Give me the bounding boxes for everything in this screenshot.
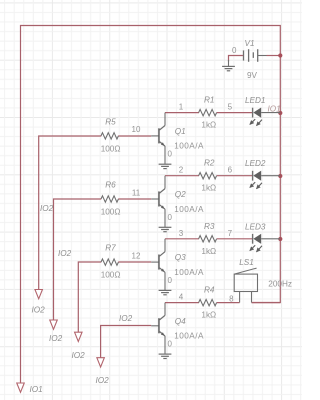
svg-text:9V: 9V <box>247 71 258 80</box>
junction dot <box>278 53 282 57</box>
svg-text:Q2: Q2 <box>175 190 186 199</box>
transistor Q4 <box>151 325 159 327</box>
svg-text:IO2: IO2 <box>32 305 46 314</box>
svg-text:100Ω: 100Ω <box>101 144 121 153</box>
svg-text:V1: V1 <box>245 39 255 48</box>
LED1 <box>252 108 254 118</box>
svg-text:R1: R1 <box>204 96 214 105</box>
svg-text:1kΩ: 1kΩ <box>201 121 216 130</box>
port IO2 (from R7) <box>75 332 83 341</box>
LED2 <box>252 171 254 181</box>
ground (Q3) <box>159 289 172 291</box>
svg-text:1kΩ: 1kΩ <box>201 311 216 320</box>
wire: Q3 collector to R3 <box>165 238 199 240</box>
svg-text:11: 11 <box>132 188 141 197</box>
ground (Q1) <box>159 163 172 165</box>
resistor R6 <box>101 196 118 202</box>
svg-text:0: 0 <box>168 340 173 349</box>
junction dot <box>278 237 282 241</box>
ground (Q4) <box>159 353 172 355</box>
svg-text:100A/A: 100A/A <box>174 142 204 151</box>
svg-text:IO2: IO2 <box>40 204 54 213</box>
svg-text:R2: R2 <box>204 159 215 168</box>
svg-text:100Ω: 100Ω <box>101 208 121 217</box>
svg-text:LED2: LED2 <box>245 159 266 168</box>
svg-text:R4: R4 <box>204 286 215 295</box>
svg-text:2: 2 <box>179 166 184 175</box>
svg-text:LS1: LS1 <box>239 258 254 267</box>
svg-text:4: 4 <box>179 293 184 302</box>
svg-text:3: 3 <box>179 229 184 238</box>
wire: IO2 drop to R5 and Q1 base <box>39 136 101 289</box>
svg-text:10: 10 <box>132 125 141 134</box>
svg-text:Q4: Q4 <box>175 317 186 326</box>
wire: Q2 collector to R2 <box>165 175 199 177</box>
svg-text:IO2: IO2 <box>119 314 133 323</box>
wire: R3 to LED3 <box>217 238 252 240</box>
svg-text:12: 12 <box>132 251 141 260</box>
ground (battery) <box>228 60 230 66</box>
svg-text:IO2: IO2 <box>58 249 72 258</box>
svg-text:100A/A: 100A/A <box>174 268 204 277</box>
transistor Q1 <box>151 135 159 137</box>
svg-text:0: 0 <box>232 46 237 55</box>
ground (Q2) <box>159 226 172 228</box>
speaker LS1 <box>234 274 257 291</box>
svg-text:7: 7 <box>228 229 233 238</box>
svg-text:IO2: IO2 <box>49 334 63 343</box>
junction dot <box>278 174 282 178</box>
wire: IO2 drop to R6 and Q2 base <box>54 199 102 320</box>
resistor R1 <box>199 109 217 115</box>
wire: LS1 right pin to rail <box>252 302 281 304</box>
wire: battery negative to ground <box>229 56 243 62</box>
svg-text:IO2: IO2 <box>96 376 110 385</box>
resistor R3 <box>199 236 217 242</box>
svg-text:Q3: Q3 <box>175 253 186 262</box>
resistor R2 <box>199 173 217 179</box>
port IO2 (from R6) <box>50 320 58 329</box>
svg-text:1: 1 <box>179 103 184 112</box>
port IO2 (from R5) <box>35 290 43 299</box>
svg-text:R6: R6 <box>105 181 116 190</box>
svg-text:8: 8 <box>229 294 234 303</box>
svg-text:1kΩ: 1kΩ <box>201 247 216 256</box>
svg-text:LED3: LED3 <box>245 222 266 231</box>
junction dot <box>278 111 282 115</box>
svg-text:Q1: Q1 <box>175 127 186 136</box>
wire: Q4 collector to R4 <box>165 302 199 304</box>
resistor R4 <box>199 299 217 305</box>
svg-text:IO1: IO1 <box>268 104 281 113</box>
svg-text:6: 6 <box>228 166 233 175</box>
svg-text:100A/A: 100A/A <box>174 205 204 214</box>
svg-text:R5: R5 <box>105 117 116 126</box>
svg-text:R7: R7 <box>105 244 116 253</box>
svg-text:1kΩ: 1kΩ <box>201 184 216 193</box>
svg-text:100Ω: 100Ω <box>101 271 121 280</box>
wire: IO2 drop to Q4 base <box>101 326 152 358</box>
wire: R1 to LED1 <box>217 112 252 114</box>
svg-text:R3: R3 <box>204 222 215 231</box>
svg-text:100A/A: 100A/A <box>174 332 204 341</box>
svg-text:0: 0 <box>168 213 173 222</box>
port IO2 (from Q4 base) <box>97 358 105 367</box>
transistor Q2 <box>151 198 159 200</box>
wire: R4 to LS1 pin <box>217 302 240 304</box>
transistor Q3 <box>151 261 159 263</box>
wire: R2 to LED2 <box>217 175 252 177</box>
svg-text:5: 5 <box>228 103 233 112</box>
port IO1 (bottom left) <box>17 383 25 392</box>
resistor R5 <box>101 133 118 139</box>
wire: battery positive to rail <box>267 55 281 57</box>
wire: Q1 collector to R1 <box>165 112 199 114</box>
svg-text:IO2: IO2 <box>72 351 86 360</box>
wire: main IO1 net (top rail, left drop, right +9V rail) <box>21 26 281 383</box>
svg-text:IO1: IO1 <box>30 385 43 394</box>
svg-text:LED1: LED1 <box>245 96 265 105</box>
svg-text:200Hz: 200Hz <box>268 280 292 289</box>
resistor R7 <box>101 259 118 265</box>
svg-text:0: 0 <box>168 150 173 159</box>
wire: IO2 drop to R7 and Q3 base <box>78 262 101 332</box>
svg-text:0: 0 <box>168 276 173 285</box>
LED3 <box>252 234 254 244</box>
battery V1 <box>243 50 245 60</box>
